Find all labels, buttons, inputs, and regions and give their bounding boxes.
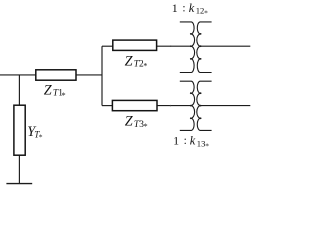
admittance YT box bbox=[14, 105, 25, 155]
wire transformer 2 secondary out bbox=[201, 105, 251, 107]
svg-text:Z: Z bbox=[125, 114, 134, 130]
wire transformer 1 secondary out bbox=[201, 45, 251, 47]
svg-text:*: * bbox=[205, 141, 209, 150]
svg-text::: : bbox=[182, 3, 185, 15]
svg-text:k: k bbox=[190, 134, 196, 148]
label ZT3 bbox=[125, 114, 148, 131]
transformer T2 primary coil (left) bbox=[180, 81, 195, 130]
svg-text:1: 1 bbox=[172, 1, 178, 15]
label YT bbox=[27, 124, 43, 142]
transformer T1 cusp knots bbox=[190, 33, 202, 60]
svg-text:12: 12 bbox=[196, 6, 205, 16]
wire shunt branch down bbox=[18, 75, 20, 105]
wire ZT2 to transformer 1 bbox=[157, 45, 191, 47]
transformer T2 secondary coil (right) bbox=[197, 81, 212, 130]
wire ZT3 to transformer 2 bbox=[157, 105, 191, 107]
svg-text:13: 13 bbox=[197, 138, 206, 148]
resistor ZT2 box bbox=[113, 40, 157, 50]
transformer T2 cusp knots bbox=[190, 92, 202, 119]
wire branch vertical bbox=[101, 46, 103, 105]
wire to ZT3 bbox=[102, 105, 112, 107]
svg-text::: : bbox=[184, 135, 187, 147]
ground bbox=[6, 183, 32, 185]
svg-text:Z: Z bbox=[44, 83, 53, 99]
svg-text:*: * bbox=[144, 122, 148, 131]
svg-text:*: * bbox=[143, 62, 147, 71]
transformer T1 secondary coil (right) bbox=[197, 22, 212, 73]
svg-text:Z: Z bbox=[125, 53, 134, 69]
transformer T1 primary coil (left) bbox=[180, 22, 195, 73]
svg-text:*: * bbox=[204, 9, 208, 18]
label ZT2 bbox=[125, 53, 148, 70]
resistor ZT3 box bbox=[112, 100, 157, 110]
label ratio 1:k12 bbox=[172, 1, 208, 18]
svg-text:1: 1 bbox=[173, 134, 179, 148]
node dot on ZT2 wire bbox=[170, 46, 171, 47]
wire main input bbox=[0, 74, 102, 76]
node dot on ZT3 wire bbox=[170, 105, 171, 106]
svg-text:*: * bbox=[39, 133, 43, 142]
wire below Y box to ground bbox=[18, 155, 20, 183]
svg-text:*: * bbox=[62, 91, 66, 100]
resistor ZT1 box bbox=[36, 70, 76, 80]
svg-text:k: k bbox=[189, 1, 195, 15]
wire to ZT2 bbox=[102, 45, 113, 47]
label ZT1 bbox=[44, 83, 66, 100]
label ratio 1:k13 bbox=[173, 134, 209, 151]
